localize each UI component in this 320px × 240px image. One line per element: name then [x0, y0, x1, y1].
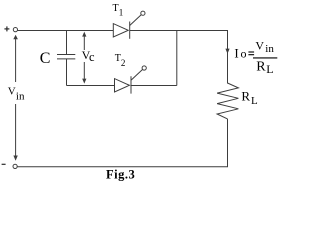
label Vc	[82, 48, 95, 64]
wire: T2 cathode to right junction	[131, 85, 177, 87]
svg-text:1: 1	[119, 8, 124, 18]
voltage arrow Vc	[82, 32, 86, 84]
wire: capacitor top lead	[66, 30, 68, 55]
svg-text:I: I	[234, 45, 238, 60]
wire: bottom rail	[17, 166, 228, 168]
svg-text:V: V	[8, 86, 16, 98]
wire: right rail down to resistor	[227, 30, 229, 84]
label Vin	[8, 86, 25, 103]
wire: T1 cathode to top-right corner	[130, 30, 229, 32]
label T2	[115, 53, 126, 68]
wire: top rail from + terminal to T1 anode	[18, 30, 114, 32]
input terminal - (bottom-left)	[2, 164, 18, 168]
voltage arrow Vin	[13, 35, 18, 161]
svg-text:o: o	[241, 47, 247, 61]
label RL	[241, 89, 258, 107]
wire: resistor to bottom rail	[227, 119, 229, 167]
label Io = Vin/RL	[234, 39, 277, 76]
svg-text:2: 2	[121, 58, 126, 68]
current arrow Io	[225, 49, 229, 54]
thyristor T1	[113, 11, 145, 39]
svg-text:L: L	[266, 62, 273, 76]
svg-text:T: T	[113, 3, 119, 14]
svg-text:V: V	[255, 39, 264, 53]
svg-text:L: L	[251, 95, 258, 107]
svg-text:c: c	[89, 50, 95, 64]
svg-text:R: R	[241, 89, 250, 104]
wire: capacitor bottom lead	[66, 59, 68, 86]
capacitor C	[57, 55, 75, 59]
wire: T2 branch up to top rail	[176, 31, 178, 86]
svg-text:Fig.3: Fig.3	[106, 167, 135, 181]
thyristor T2	[115, 66, 147, 94]
label T1	[113, 3, 124, 18]
svg-text:R: R	[256, 60, 266, 75]
svg-text:in: in	[16, 90, 25, 102]
wire: middle rail to T2 anode	[67, 85, 115, 87]
svg-text:C: C	[40, 50, 51, 67]
resistor RL	[217, 83, 238, 119]
svg-text:in: in	[265, 43, 274, 55]
input terminal + (top-left)	[4, 26, 17, 31]
